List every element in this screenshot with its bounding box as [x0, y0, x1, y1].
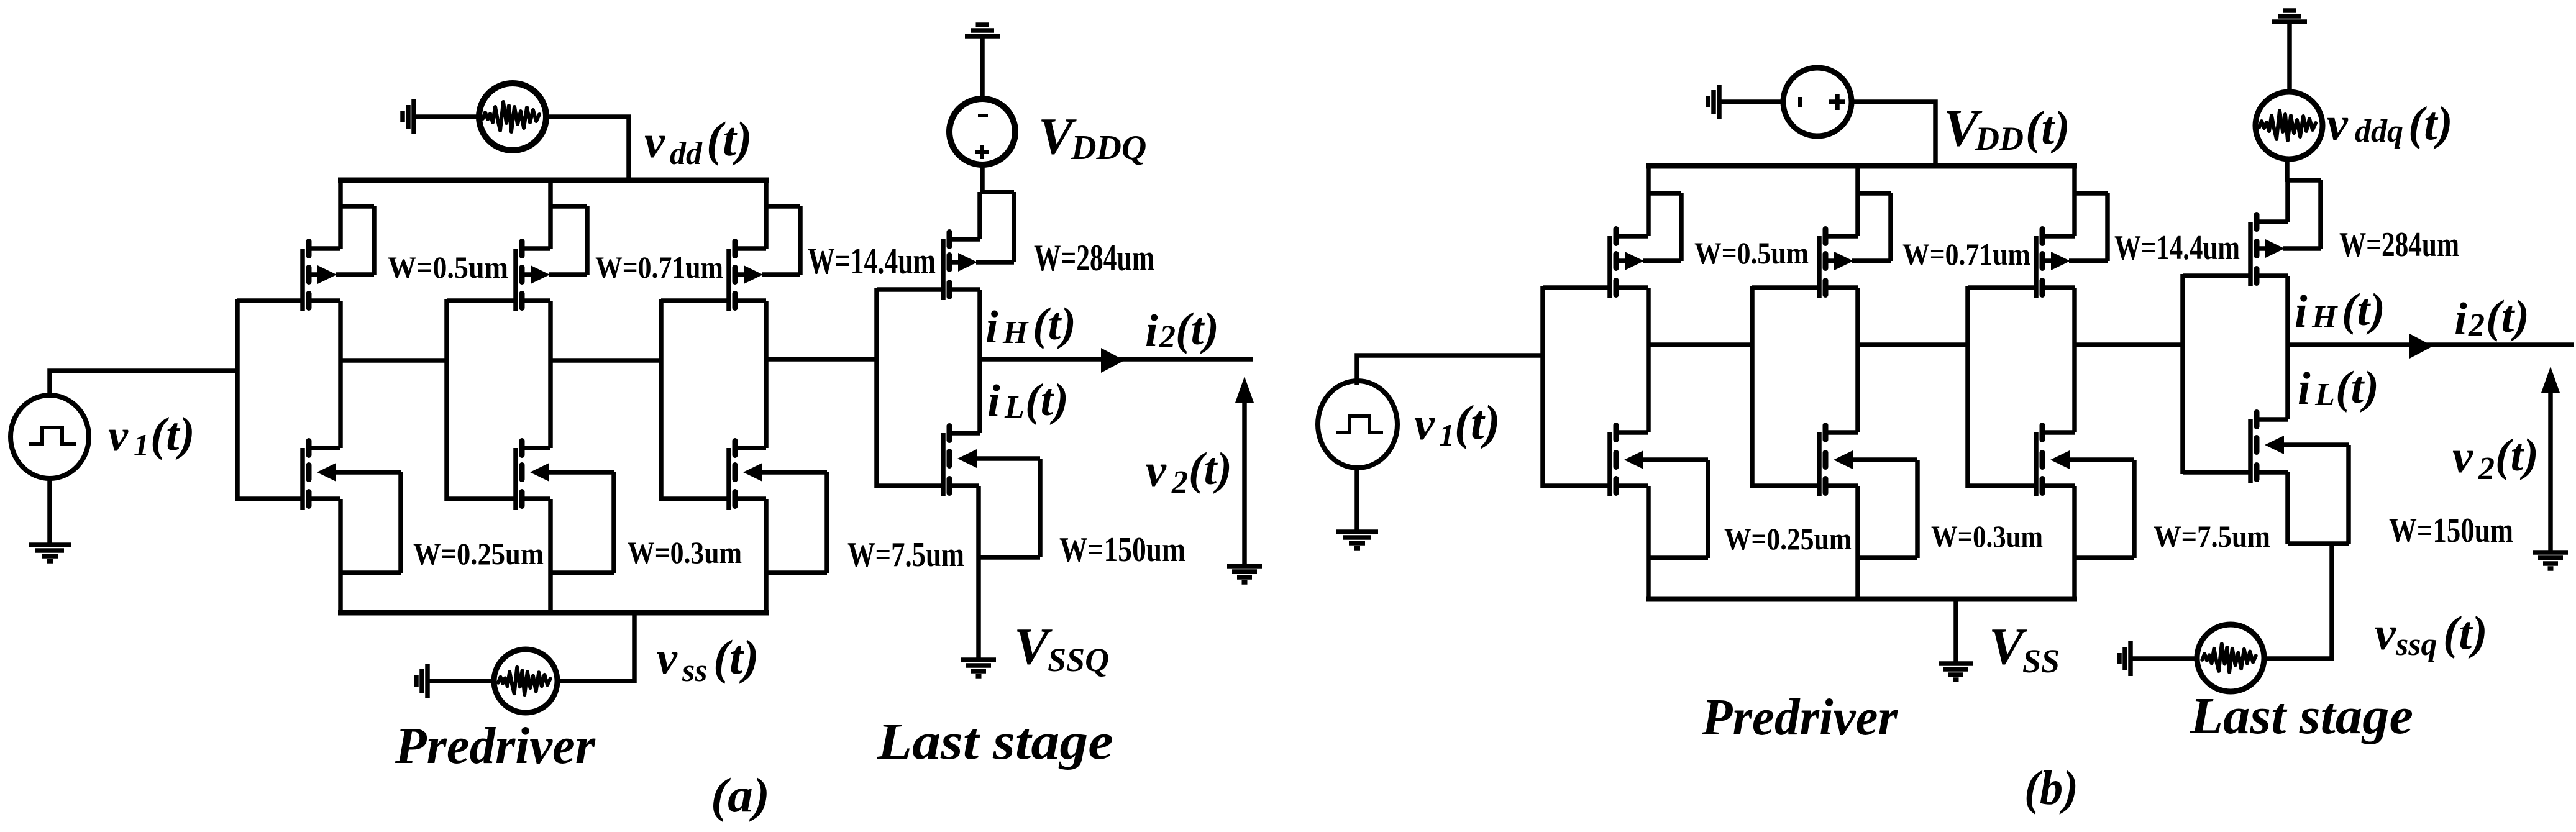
wire PMOS source stub stage3 (b)	[2042, 234, 2075, 239]
svg-text:(t): (t)	[2486, 291, 2529, 342]
wire PMOS bulk flag stage3 (a)	[762, 206, 800, 275]
wire gate lead PMOS last (a)	[877, 287, 945, 292]
wire PMOS source stub last (a)	[949, 237, 980, 242]
wire NMOS source vertical stage3 (b)	[2072, 486, 2077, 599]
label i_2(t) (a)	[1145, 304, 1219, 357]
svg-text:2: 2	[2478, 451, 2495, 487]
svg-text:W=284um: W=284um	[2339, 226, 2459, 264]
label W=14.4um (a)	[808, 240, 936, 281]
ground V_SS (b)	[1939, 664, 1973, 680]
transistor M10 NMOS stage1 (b)	[1610, 426, 1643, 497]
svg-text:(t): (t)	[1455, 395, 1500, 449]
vss rail (a)	[338, 610, 769, 616]
wire NMOS source stub last (b)	[2257, 470, 2288, 475]
transistor M2 NMOS stage1 (a)	[303, 441, 336, 510]
transistor M1 PMOS stage1 (a)	[303, 242, 337, 312]
label gate lead PMOS stage3 (a) wire	[661, 298, 731, 303]
ground below v1 (b)	[1336, 532, 1378, 548]
wire NMOS source stub stage3 (b)	[2042, 483, 2075, 488]
wire NMOS source vertical stage2 (a)	[548, 499, 553, 613]
wire PMOS source stub last (b)	[2257, 219, 2288, 224]
transistor M14 NMOS stage3 (b)	[2036, 426, 2070, 497]
wire V_DDQ to last stage PMOS (a)	[980, 164, 985, 194]
label v_ddq(t) (b)	[2327, 98, 2453, 150]
wire PMOS source vertical stage2 (a)	[548, 180, 553, 249]
wire NMOS drain stub stage1 (a)	[309, 446, 340, 450]
transistor M8 NMOS last stage (a)	[943, 426, 977, 497]
label i_H (t) (a)	[985, 299, 1076, 353]
noise source v_ssq(t) (b)	[2197, 624, 2264, 692]
wire gate vertical stage2 (a)	[444, 299, 449, 501]
svg-text:H: H	[2311, 299, 2338, 335]
svg-text:(t): (t)	[2336, 362, 2379, 413]
wire bus stage2-stage3 (b)	[1858, 342, 1970, 347]
svg-text:i: i	[987, 376, 1000, 427]
wire NMOS drain stub stage2 (a)	[522, 446, 550, 450]
wire gate lead PMOS last (b)	[2183, 273, 2252, 278]
transistor M7 PMOS last stage (a)	[943, 232, 977, 301]
svg-text:SS: SS	[2022, 642, 2060, 680]
wire PMOS bulk flag stage3 (b)	[2069, 193, 2108, 261]
voltage source V_DD (b)	[1783, 68, 1852, 136]
wire output vertical stage1 (b)	[1646, 288, 1651, 432]
svg-text:(t): (t)	[2408, 98, 2453, 150]
label W=14.4um (b)	[2114, 229, 2240, 267]
vss rail (b)	[1646, 597, 2077, 602]
wire PMOS source stub stage2 (a)	[522, 246, 550, 251]
svg-text:W=0.71um: W=0.71um	[1902, 237, 2030, 272]
wire NMOS drain stub stage3 (b)	[2042, 430, 2075, 435]
ground left of vssq noise (b)	[2119, 641, 2131, 676]
vdd rail (a)	[338, 178, 769, 183]
wire NMOS drain stub stage2 (b)	[1825, 430, 1858, 435]
label gate lead PMOS stage1 (a) wire	[237, 298, 304, 303]
svg-text:W=7.5um: W=7.5um	[2154, 519, 2270, 554]
wire vss rail to ground (b)	[1953, 599, 1958, 662]
label v1(t) (a)	[108, 408, 195, 462]
wire bus stage2-stage3 (a)	[550, 358, 663, 363]
wire gate lead NMOS stage3 (a)	[661, 496, 731, 501]
arrow v2 (a)	[1235, 377, 1254, 567]
label i_H (t) (b)	[2295, 285, 2385, 337]
wire PMOS drain stub last (a)	[949, 287, 980, 292]
svg-text:2: 2	[1159, 319, 1176, 355]
wire PMOS bulk flag last (b)	[2283, 180, 2321, 249]
svg-text:(t): (t)	[1025, 375, 1069, 426]
label W=0.25um (b)	[1724, 521, 1852, 556]
label W=150um (b)	[2389, 511, 2513, 550]
svg-text:W=14.4um: W=14.4um	[808, 240, 936, 281]
svg-text:1: 1	[134, 427, 149, 462]
svg-text:L: L	[2314, 377, 2335, 413]
svg-text:(t): (t)	[1189, 444, 1232, 495]
wire output vertical last (b)	[2285, 276, 2290, 419]
svg-text:W=7.5um: W=7.5um	[847, 536, 964, 574]
wire NMOS source vertical stage3 (a)	[764, 499, 769, 613]
wire PMOS drain stub stage3 (a)	[735, 298, 766, 303]
wire v1 to stage1 gate (b)	[1357, 355, 1543, 385]
wire PMOS bulk flag stage2 (b)	[1852, 193, 1891, 261]
svg-text:W=14.4um: W=14.4um	[2114, 229, 2240, 267]
wire NMOS drain stub stage3 (a)	[735, 446, 766, 450]
wire PMOS drain stub stage2 (a)	[522, 298, 550, 303]
label W=284um (a)	[1034, 237, 1154, 278]
label W=0.3um (b)	[1931, 519, 2043, 554]
svg-text:i: i	[1145, 306, 1158, 357]
svg-text:(t): (t)	[2342, 285, 2385, 336]
svg-text:W=0.71um: W=0.71um	[595, 250, 723, 285]
wire PMOS drain stub stage3 (b)	[2042, 285, 2075, 290]
wire vss noise to ground (a)	[429, 679, 494, 683]
label V_DD(t) (b)	[1943, 99, 2070, 157]
wire NMOS bulk flag stage3 (a)	[762, 472, 827, 573]
wire gate lead NMOS last (b)	[2183, 470, 2252, 475]
wire bus stage1-stage2 (b)	[1648, 342, 1754, 347]
svg-text:Last stage: Last stage	[2190, 687, 2413, 745]
svg-text:W=150um: W=150um	[2389, 511, 2513, 550]
wire PMOS bulk flag last (a)	[976, 192, 1014, 262]
wire NMOS drain stub last (b)	[2257, 417, 2288, 422]
transistor M12 NMOS stage2 (b)	[1819, 426, 1853, 497]
wire PMOS source stub stage1 (b)	[1616, 234, 1648, 239]
svg-text:W=0.5um: W=0.5um	[1694, 235, 1809, 270]
wire gate lead NMOS last (a)	[877, 483, 945, 488]
wire PMOS bulk flag stage1 (a)	[336, 206, 374, 275]
wire ground to V_DD source (b)	[1721, 99, 1784, 104]
wire NMOS source vertical last (b)	[2285, 472, 2290, 544]
wire NMOS source vertical stage1 (b)	[1646, 486, 1651, 599]
svg-text:2: 2	[1171, 465, 1188, 500]
wire NMOS bulk flag last (b)	[2283, 445, 2349, 544]
wire PMOS source vertical stage1 (a)	[338, 180, 343, 249]
label v_dd(t) (a)	[644, 112, 752, 171]
svg-text:i: i	[985, 302, 998, 353]
svg-text:L: L	[1004, 390, 1025, 425]
svg-text:dd: dd	[670, 136, 703, 171]
svg-text:ssq: ssq	[2395, 627, 2437, 662]
wire NMOS bulk flag stage2 (a)	[549, 472, 614, 573]
wire NMOS source stub stage3 (a)	[735, 496, 766, 501]
svg-text:W=0.25um: W=0.25um	[413, 536, 544, 571]
svg-text:W=150um: W=150um	[1059, 531, 1185, 569]
wire NMOS source stub stage2 (a)	[522, 496, 550, 501]
label i_2(t) (b)	[2454, 291, 2529, 345]
wire NMOS bulk flag stage1 (a)	[336, 472, 401, 573]
arrow v2 (b)	[2541, 367, 2560, 551]
svg-text:SSQ: SSQ	[1048, 641, 1109, 679]
arrowhead i2 (a)	[1101, 348, 1125, 373]
ground below v2 arrow (a)	[1227, 566, 1262, 582]
svg-text:(b): (b)	[2024, 761, 2078, 815]
svg-text:W=284um: W=284um	[1034, 237, 1154, 278]
caption (b)	[2024, 761, 2078, 815]
svg-text:W=0.25um: W=0.25um	[1724, 521, 1852, 556]
wire gate vertical stage3 (a)	[659, 299, 664, 501]
wire gate vertical stage2 (b)	[1750, 286, 1755, 488]
wire NMOS drain stub stage1 (b)	[1616, 430, 1648, 435]
wire gate lead NMOS stage2 (b)	[1752, 483, 1821, 488]
label W=7.5um (b)	[2154, 519, 2270, 554]
svg-text:(t): (t)	[713, 630, 759, 684]
wire PMOS drain stub stage2 (b)	[1825, 285, 1858, 290]
wire PMOS source vertical stage1 (b)	[1646, 166, 1651, 236]
wire NMOS bulk flag stage1 (b)	[1643, 460, 1708, 558]
svg-text:(t): (t)	[150, 408, 195, 460]
wire bus stage3-stage4 (b)	[2075, 342, 2185, 347]
transistor M5 PMOS stage3 (a)	[729, 242, 763, 312]
svg-text:W=0.3um: W=0.3um	[1931, 519, 2043, 554]
wire PMOS bulk flag stage1 (b)	[1643, 193, 1681, 261]
wire gate vertical last (b)	[2180, 274, 2185, 474]
wire gate vertical last (a)	[874, 288, 879, 488]
svg-text:v: v	[1146, 446, 1167, 496]
noise source v_ss(t) (a)	[494, 649, 557, 713]
wire PMOS source stub stage1 (a)	[309, 246, 340, 251]
label W=0.5um (b)	[1694, 235, 1809, 270]
wire vssq noise to ground (b)	[2132, 656, 2198, 661]
transistor M4 NMOS stage2 (a)	[516, 441, 549, 510]
wire output vertical stage2 (a)	[548, 301, 553, 448]
label V_SS (b)	[1989, 618, 2060, 680]
svg-text:V: V	[1014, 618, 1053, 675]
wire NMOS source stub stage2 (b)	[1825, 483, 1858, 488]
wire PMOS source vertical stage2 (b)	[1855, 166, 1860, 236]
noise source v_ddq(t) (b)	[2255, 92, 2323, 159]
svg-text:(t): (t)	[2026, 102, 2070, 154]
wire v_ddq noise to last PMOS (b)	[2285, 158, 2290, 182]
svg-text:(t): (t)	[1033, 299, 1076, 350]
label v_2(t) (b)	[2452, 430, 2539, 487]
label W=0.5um (a)	[388, 250, 508, 285]
wire gate vertical stage3 (b)	[1965, 286, 1970, 488]
ground above v_ddq noise (b)	[2272, 11, 2307, 22]
wire gate lead NMOS stage1 (a)	[237, 496, 304, 501]
ground V_SSQ (a)	[961, 660, 996, 676]
transistor M13 PMOS stage3 (b)	[2036, 229, 2070, 299]
svg-text:i: i	[2295, 286, 2308, 337]
label W=0.3um (a)	[628, 535, 742, 570]
label v_2(t) (a)	[1146, 444, 1232, 500]
wire NMOS source vertical stage1 (a)	[338, 499, 343, 613]
ground left of vdd noise source (a)	[403, 99, 414, 134]
wire gate lead NMOS stage3 (b)	[1968, 483, 2038, 488]
wire PMOS source vertical stage3 (b)	[2072, 166, 2077, 236]
label W=284um (b)	[2339, 226, 2459, 264]
wire NMOS source stub last (a)	[949, 483, 979, 488]
wire PMOS bulk flag stage2 (a)	[549, 206, 587, 275]
wire PMOS source vertical last (a)	[977, 192, 982, 239]
label gate lead PMOS stage2 (a) wire	[447, 298, 518, 303]
ground below v1 (a)	[29, 545, 71, 561]
svg-text:W=0.3um: W=0.3um	[628, 535, 742, 570]
wire gate lead PMOS stage1 (b)	[1543, 285, 1612, 290]
svg-text:Last stage: Last stage	[877, 713, 1113, 770]
wire bus stage1-stage2 (a)	[340, 358, 449, 363]
wire gate vertical stage1 (a)	[235, 299, 240, 501]
wire PMOS drain stub stage1 (b)	[1616, 285, 1648, 290]
label v_ss(t) (a)	[657, 630, 759, 688]
transistor M3 PMOS stage2 (a)	[516, 242, 550, 312]
wire output vertical stage2 (b)	[1855, 288, 1860, 432]
voltage source V_DDQ (a)	[949, 99, 1015, 165]
wire v1 to stage1 gate (a)	[50, 371, 237, 396]
wire v1 ground stem (a)	[47, 478, 52, 543]
svg-text:v: v	[1414, 399, 1435, 450]
svg-text:2: 2	[2468, 308, 2485, 343]
label v1(t) (b)	[1414, 395, 1500, 452]
svg-text:(t): (t)	[2443, 607, 2488, 659]
svg-text:v: v	[644, 117, 665, 168]
ground left of V_DD source (b)	[1708, 85, 1719, 119]
wire NMOS source stub stage1 (a)	[309, 496, 340, 501]
svg-text:(a): (a)	[711, 768, 770, 822]
wire ground to v_ddq noise (b)	[2287, 24, 2292, 93]
ground left of vss noise source (a)	[416, 664, 427, 698]
wire output line i2 (b)	[2288, 342, 2574, 347]
arrowhead i2 (b)	[2409, 334, 2433, 359]
voltage source v1(t) (a) pulse source	[11, 395, 89, 478]
caption Last stage (a)	[877, 713, 1113, 770]
caption Predriver (b)	[1701, 688, 1898, 746]
svg-text:v: v	[2452, 432, 2473, 483]
wire NMOS bulk flag last (a)	[976, 459, 1040, 557]
wire gate lead NMOS stage1 (b)	[1543, 483, 1612, 488]
wire vdd noise source to rail (a)	[546, 117, 629, 180]
transistor M15 PMOS last stage (b)	[2250, 215, 2285, 287]
wire gate lead PMOS stage2 (b)	[1752, 285, 1821, 290]
wire gate lead PMOS stage3 (b)	[1968, 285, 2038, 290]
label i_L(t) (b)	[2298, 362, 2379, 414]
svg-text:Predriver: Predriver	[1701, 688, 1898, 746]
caption (a)	[711, 768, 770, 822]
wire ground to V_DDQ source (a)	[980, 38, 985, 99]
svg-text:H: H	[1002, 315, 1029, 350]
svg-text:W=0.5um: W=0.5um	[388, 250, 508, 285]
svg-text:v: v	[2327, 98, 2349, 150]
label i_L(t) (a)	[987, 375, 1069, 427]
svg-text:v: v	[108, 411, 129, 460]
svg-text:1: 1	[1439, 418, 1455, 452]
svg-text:v: v	[2375, 608, 2396, 660]
wire PMOS source stub stage3 (a)	[735, 246, 766, 251]
svg-text:ddq: ddq	[2355, 114, 2403, 149]
wire NMOS source vertical stage2 (b)	[1855, 486, 1860, 599]
wire NMOS bulk flag stage3 (b)	[2069, 460, 2134, 558]
transistor M11 PMOS stage2 (b)	[1819, 229, 1853, 299]
wire PMOS source vertical stage3 (a)	[764, 180, 769, 249]
svg-text:DDQ: DDQ	[1071, 129, 1146, 167]
wire output vertical last (a)	[977, 290, 982, 433]
wire NMOS source to vssq noise (b)	[2266, 544, 2332, 659]
wire gate vertical stage1 (b)	[1540, 286, 1545, 488]
label W=0.25um (a)	[413, 536, 544, 571]
svg-text:Predriver: Predriver	[395, 717, 596, 775]
wire bus stage3-stage4 (a)	[766, 357, 879, 362]
svg-text:(t): (t)	[706, 112, 752, 166]
wire NMOS source stub stage1 (b)	[1616, 483, 1648, 488]
noise source v_dd(t) (a)	[479, 83, 546, 150]
wire PMOS source stub stage2 (b)	[1825, 234, 1858, 239]
svg-text:ss: ss	[682, 653, 707, 688]
wire PMOS source vertical last (b)	[2285, 180, 2290, 222]
wire output vertical stage3 (a)	[764, 301, 769, 448]
ground below v2 arrow (b)	[2533, 552, 2568, 569]
wire v1 ground stem (b)	[1354, 465, 1359, 530]
wire ground to vdd noise source (a)	[416, 114, 480, 119]
wire output vertical stage3 (b)	[2072, 288, 2077, 432]
wire V_DD source to rail (b)	[1851, 102, 1935, 166]
svg-text:(t): (t)	[1176, 304, 1219, 355]
caption Last stage (b)	[2190, 687, 2413, 745]
svg-text:i: i	[2298, 363, 2311, 414]
label W=7.5um (a)	[847, 536, 964, 574]
wire PMOS drain stub last (b)	[2257, 273, 2288, 278]
label v_ssq(t) (b)	[2375, 607, 2488, 662]
transistor M9 PMOS stage1 (b)	[1610, 229, 1644, 299]
wire gate lead NMOS stage2 (a)	[447, 496, 518, 501]
vdd rail (b)	[1646, 163, 2077, 169]
voltage source v1(t) (b) pulse source	[1318, 381, 1397, 468]
svg-text:DD: DD	[1975, 120, 2024, 157]
label V_DDQ (a)	[1038, 107, 1146, 167]
wire output vertical stage1 (a)	[338, 301, 343, 448]
wire NMOS source vertical last (a)	[976, 486, 981, 658]
transistor M6 NMOS stage3 (a)	[729, 441, 762, 510]
label V_SSQ (a)	[1014, 618, 1109, 679]
label W=0.71um (b)	[1902, 237, 2030, 272]
wire NMOS bulk flag stage2 (b)	[1852, 460, 1917, 558]
wire vss rail to noise source (a)	[557, 613, 634, 681]
svg-text:v: v	[657, 633, 678, 684]
caption Predriver (a)	[395, 717, 596, 775]
wire output line i2 (a)	[980, 357, 1253, 362]
wire NMOS drain stub last (a)	[949, 431, 980, 436]
svg-text:i: i	[2454, 294, 2467, 345]
wire PMOS drain stub stage1 (a)	[309, 298, 340, 303]
label W=150um (a)	[1059, 531, 1185, 569]
transistor M16 NMOS last stage (b)	[2250, 413, 2284, 483]
label W=0.71um (a)	[595, 250, 723, 285]
svg-text:V: V	[1989, 618, 2027, 675]
ground above V_DDQ (a)	[965, 25, 1000, 36]
svg-text:(t): (t)	[2495, 430, 2539, 481]
